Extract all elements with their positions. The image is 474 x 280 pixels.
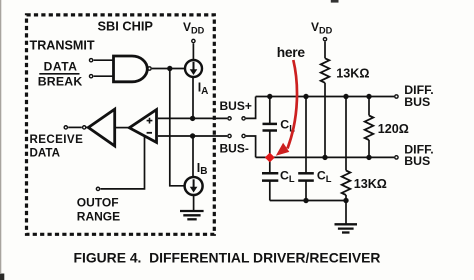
- svg-text:BUS-: BUS-: [220, 142, 249, 156]
- annotation red arrow curve: [276, 60, 297, 156]
- junction IA / BUS+: [190, 116, 195, 121]
- capacitor CL1 (between BUS+ and BUS-): [263, 97, 278, 158]
- ground (chip): [180, 211, 204, 219]
- junction 120R / BUS+ rail: [366, 94, 371, 99]
- svg-text:BUS: BUS: [404, 154, 430, 168]
- junction 13K lower / BUS+ rail: [343, 94, 348, 99]
- node OUTOF RANGE terminal: [96, 187, 99, 190]
- NAND gate U1: [114, 56, 152, 82]
- wire comparator output to buffer input: [116, 127, 129, 129]
- wire ground rail to ground symbol: [345, 201, 347, 224]
- power VDD terminal (external): [311, 20, 333, 58]
- wire control line down to IB: [170, 69, 185, 186]
- wire BUS- pin to external rail (riser): [246, 136, 256, 157]
- wire BUS+ internal: [158, 117, 227, 119]
- wire BUS- to IB: [192, 136, 194, 177]
- current source IB: [185, 177, 203, 195]
- comparator U2: [129, 110, 156, 143]
- junction 13K lower / ground rail: [343, 198, 348, 203]
- node DATA input terminal: [89, 59, 113, 62]
- label DIFF BUS upper: [404, 83, 433, 109]
- svg-text:RANGE: RANGE: [77, 210, 120, 224]
- wire BUS+ pin to external rail (riser): [246, 97, 256, 119]
- svg-text:120Ω: 120Ω: [378, 122, 409, 136]
- junction CL3 / ground rail: [303, 198, 308, 203]
- junction 120R / BUS- rail: [366, 155, 371, 160]
- node RECEIVE DATA terminals: [64, 126, 89, 129]
- svg-text:RECEIVE: RECEIVE: [30, 133, 84, 146]
- wire IA to BUS+: [192, 78, 194, 119]
- svg-text:here: here: [277, 45, 306, 60]
- wire 13K upper to BUS- rail (crosses BUS+ rail): [324, 83, 326, 158]
- node BUS- pin terminals: [228, 134, 245, 137]
- svg-text:BUS: BUS: [404, 95, 430, 109]
- wire BUS+ rail down to 13K lower (crosses BUS- rail): [345, 97, 347, 171]
- wire BUS+ external rail: [256, 96, 394, 98]
- wire bottom ground rail: [270, 200, 346, 202]
- page edge artifact top (partial glyph): [331, 0, 339, 3]
- buffer U3: [88, 109, 114, 146]
- current source IA: [185, 60, 202, 77]
- ground (external): [335, 224, 358, 232]
- power VDD terminal (chip): [183, 20, 205, 59]
- junction NAND output node: [167, 66, 172, 71]
- wire BUS+ rail down to CL3 (crosses BUS- rail): [305, 97, 307, 173]
- svg-text:FIGURE 4. DIFFERENTIAL DRIVER: FIGURE 4. DIFFERENTIAL DRIVER/RECEIVER: [74, 249, 381, 265]
- wire BUS- external rail: [256, 156, 394, 158]
- page edge artifact left: [0, 0, 1, 273]
- node DIFF BUS terminal (upper): [395, 95, 398, 98]
- svg-text:BUS+: BUS+: [220, 99, 252, 113]
- svg-text:DATA: DATA: [30, 147, 61, 160]
- junction CL1 column / BUS+ rail: [267, 94, 272, 99]
- svg-text:BREAK: BREAK: [38, 75, 83, 89]
- junction 13K upper / BUS- rail: [322, 155, 327, 160]
- junction IB / BUS-: [190, 133, 195, 138]
- label DIFF BUS lower: [404, 142, 433, 168]
- svg-text:OUTOF: OUTOF: [77, 195, 119, 209]
- node DIFF BUS terminal (lower): [395, 156, 398, 159]
- capacitor CL3 (BUS+ to ground rail): [298, 173, 314, 200]
- node BUS+ pin terminals: [228, 117, 245, 120]
- svg-text:SBI CHIP: SBI CHIP: [98, 18, 154, 33]
- svg-text:DATA: DATA: [44, 60, 78, 74]
- wire OUTOF RANGE to comparator: [101, 136, 145, 189]
- svg-text:13KΩ: 13KΩ: [354, 177, 387, 191]
- resistor 13K upper (VDD pullup): [321, 58, 330, 83]
- label RECEIVE DATA: [30, 133, 84, 159]
- node BREAK input terminal: [89, 75, 113, 78]
- wire NAND output to IA current source: [152, 68, 185, 70]
- wire BUS- internal: [158, 135, 227, 137]
- resistor 13K lower (BUS+ to ground): [342, 171, 351, 196]
- label BREAK (with fraction bar): [38, 74, 83, 89]
- svg-text:TRANSMIT: TRANSMIT: [30, 38, 95, 52]
- resistor 120R (between rails): [365, 97, 374, 158]
- wire 13K lower to ground rail: [345, 195, 347, 201]
- SBI chip dashed boundary: [27, 15, 215, 234]
- page edge artifact bottom-left: [0, 274, 4, 280]
- label OUTOF RANGE: [77, 195, 120, 223]
- svg-text:13KΩ: 13KΩ: [336, 66, 369, 80]
- wire IB to ground: [193, 195, 195, 211]
- annotation red highlight node on BUS-: [265, 153, 275, 163]
- junction CL3 column / BUS+ rail: [303, 94, 308, 99]
- capacitor CL2 (BUS- to ground rail): [262, 157, 278, 200]
